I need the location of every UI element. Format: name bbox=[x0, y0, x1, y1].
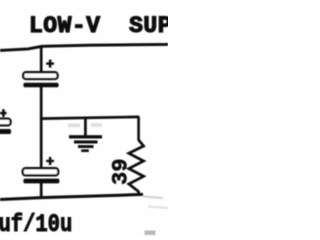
wire top supply rail bbox=[0, 44, 168, 50]
wire vertical junction to C2 bbox=[40, 118, 43, 169]
ground bar 2 bbox=[74, 140, 98, 143]
ground smudge right bbox=[91, 123, 102, 127]
capacitor C1 plus sign bbox=[46, 60, 54, 68]
capacitor C2 bottom plate bbox=[23, 179, 59, 184]
ground bar 4 bbox=[81, 149, 89, 152]
capacitor (partial, left edge) bottom plate bbox=[0, 129, 11, 134]
ground smudge left bbox=[68, 124, 80, 128]
faint mark bottom right bbox=[145, 231, 156, 236]
ground bar 1 bbox=[69, 135, 102, 138]
wire vertical between C1 and junction bbox=[40, 87, 43, 119]
svg-text:uf/10u: uf/10u bbox=[0, 210, 72, 236]
capacitor C1 bottom plate bbox=[23, 83, 58, 88]
wire C2 to bottom rail bbox=[40, 183, 43, 199]
svg-text:LOW-V SUP: LOW-V SUP bbox=[29, 13, 168, 39]
capacitor C2 plus sign bbox=[46, 157, 54, 165]
ground stub bbox=[84, 118, 87, 136]
capacitor C2 top plate bbox=[23, 168, 59, 175]
wire main vertical rail segment to C1 bbox=[40, 47, 43, 73]
svg-text:39: 39 bbox=[108, 158, 133, 185]
wire middle horizontal to resistor bbox=[40, 117, 139, 119]
resistor R 39 ohm zigzag bbox=[129, 140, 144, 192]
wire bottom rail bbox=[0, 194, 143, 199]
faint lower edge line right bbox=[148, 207, 168, 209]
capacitor (partial, left edge) top plate bbox=[0, 119, 11, 126]
wire resistor top lead bbox=[137, 117, 140, 140]
capacitor (partial, left edge) plus sign bbox=[0, 109, 7, 117]
wire bottom rail faint continuation bbox=[143, 197, 163, 199]
wire resistor bottom lead bbox=[137, 191, 140, 196]
capacitor C1 top plate bbox=[23, 72, 57, 79]
ground bar 3 bbox=[78, 145, 94, 148]
